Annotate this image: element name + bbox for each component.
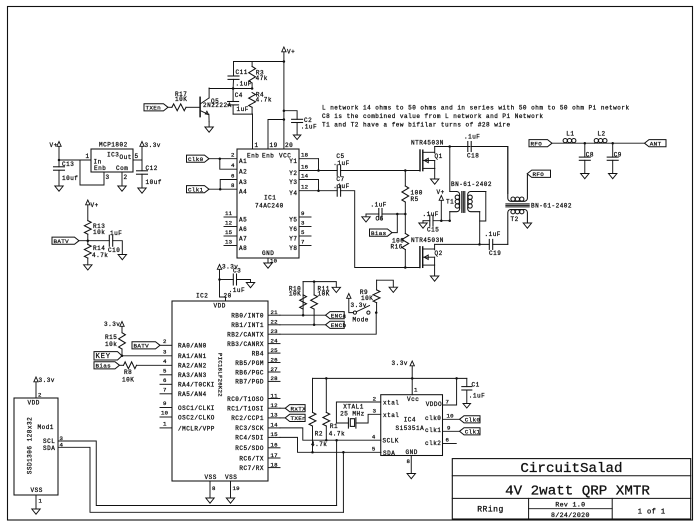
wire Clk1 to A3 xyxy=(220,172,247,189)
svg-text:10uf: 10uf xyxy=(62,175,78,182)
svg-text:RA2/AN2: RA2/AN2 xyxy=(178,363,207,370)
node R3/R4 tap xyxy=(251,87,254,90)
svg-text:3.3v: 3.3v xyxy=(39,377,55,384)
svg-text:C9: C9 xyxy=(614,151,622,158)
ground (R10/R11) xyxy=(332,287,340,292)
svg-text:RC2/CCP1: RC2/CCP1 xyxy=(231,415,264,422)
svg-text:.1uF: .1uF xyxy=(423,211,439,218)
node Clk0 branch xyxy=(219,157,222,160)
pin 13 RC2/CCP1 (IC2) xyxy=(231,412,280,423)
pin stub A8 xyxy=(224,239,247,252)
clock IC4 Si5351A body xyxy=(381,395,443,457)
svg-text:5: 5 xyxy=(372,446,376,453)
svg-text:C8 is the combined value from: C8 is the combined value from L network … xyxy=(322,113,543,120)
capacitor C9 xyxy=(607,143,622,173)
svg-text:3.3v: 3.3v xyxy=(104,321,120,328)
pin 24 RB3/CANRX (IC2) xyxy=(227,337,280,348)
ground (VSS 19) xyxy=(226,498,234,503)
svg-text:9: 9 xyxy=(301,210,305,217)
label Clk0 (flag to A1) xyxy=(187,155,210,163)
resistor R11 10K xyxy=(311,282,330,325)
wire IC3 Out to C12 xyxy=(133,159,142,161)
svg-text:RFO: RFO xyxy=(533,171,545,178)
svg-text:Y6: Y6 xyxy=(289,226,297,233)
pin 22 RB1/INT1 (IC2) xyxy=(231,319,280,330)
svg-text:A6: A6 xyxy=(239,226,247,233)
svg-text:.1uF: .1uF xyxy=(464,134,480,141)
title text RRing xyxy=(477,506,504,515)
svg-text:10K: 10K xyxy=(289,291,301,298)
svg-text:15: 15 xyxy=(225,229,233,236)
svg-text:3.3v: 3.3v xyxy=(351,302,367,309)
pin 26 RB5/PGM (IC2) xyxy=(235,356,280,367)
wire Y3 to Y4 xyxy=(318,180,320,191)
svg-text:4.7k: 4.7k xyxy=(311,441,327,448)
svg-text:Si5351A: Si5351A xyxy=(396,425,425,432)
node C1 tap xyxy=(455,377,458,380)
node SDA drop xyxy=(342,451,345,454)
wire C7 to Q2 gate xyxy=(340,191,420,268)
svg-text:R15: R15 xyxy=(105,334,117,341)
svg-text:8: 8 xyxy=(231,182,235,189)
svg-text:Y4: Y4 xyxy=(289,190,297,197)
node Y3/Y4 join xyxy=(317,189,320,192)
node BATV/R13/R14 xyxy=(87,239,90,242)
display Mod1 SSD1306 body xyxy=(14,398,58,495)
pin 1 wire (IC4 Vcc) xyxy=(414,387,418,394)
svg-text:2N2222A: 2N2222A xyxy=(203,102,232,109)
svg-text:C13: C13 xyxy=(62,161,74,168)
svg-text:Y2: Y2 xyxy=(289,170,297,177)
node R10/ENCa xyxy=(302,314,305,317)
wire C4/R4 to IC1 pin1 xyxy=(233,114,252,149)
wire VDDO pin7 xyxy=(443,378,457,405)
svg-text:9: 9 xyxy=(447,425,451,432)
svg-text:C8: C8 xyxy=(586,151,594,158)
svg-text:1 of 1: 1 of 1 xyxy=(638,509,666,517)
capacitor C5 .1uF xyxy=(333,153,349,176)
svg-text:NTR4503N: NTR4503N xyxy=(411,140,444,147)
svg-text:C5: C5 xyxy=(336,153,344,160)
label RFO (flag source) xyxy=(529,140,552,148)
pin Y3 wire xyxy=(289,172,318,186)
pin stub clk2 xyxy=(443,437,457,444)
svg-text:RB2/CANTX: RB2/CANTX xyxy=(227,332,264,339)
label TXEn (flag pin13) xyxy=(280,414,306,422)
inductor L1 xyxy=(552,131,595,144)
wire Clk1 to A4 xyxy=(209,182,247,196)
label RxTX (flag pin12) xyxy=(280,405,306,413)
label RFO (flag from T2) xyxy=(527,170,550,178)
wire R9 to ground xyxy=(377,280,394,287)
label Clk1 (flag out) xyxy=(460,428,481,436)
capacitor C3 .1uF xyxy=(220,268,251,295)
svg-text:2: 2 xyxy=(38,392,42,399)
node R1/rail xyxy=(325,377,328,380)
svg-text:VDD: VDD xyxy=(28,400,40,407)
wire Q1 drain to rail xyxy=(434,147,436,154)
svg-text:4.7k: 4.7k xyxy=(256,97,272,104)
svg-text:A1: A1 xyxy=(239,158,247,165)
svg-text:25 MHz: 25 MHz xyxy=(340,411,365,418)
ground (VSS 8) xyxy=(206,498,214,503)
svg-text:7: 7 xyxy=(163,387,167,394)
wire rail to C1 xyxy=(466,378,468,386)
wire C15 to T1 xyxy=(433,220,450,222)
ground (T2 secondary) xyxy=(523,223,531,228)
svg-text:Clk1: Clk1 xyxy=(188,187,204,194)
svg-text:8: 8 xyxy=(407,458,411,465)
svg-text:10K: 10K xyxy=(175,96,187,103)
svg-text:xtal: xtal xyxy=(383,412,399,419)
resistor R13 10k xyxy=(84,221,105,241)
power symbol V+ (R13) xyxy=(86,200,99,221)
svg-text:BATV: BATV xyxy=(54,238,70,245)
pin stub OSC2 xyxy=(160,410,215,422)
wire C6 ground stub xyxy=(365,214,367,217)
ground (C13) xyxy=(55,186,63,191)
wire C10 to ground xyxy=(113,241,123,255)
pin 2 label (IC3 Com) xyxy=(124,174,128,181)
svg-text:VDD: VDD xyxy=(214,303,226,310)
node Y1/Y2 join xyxy=(317,169,320,172)
ground (Q1 source) xyxy=(431,179,439,184)
svg-text:C4: C4 xyxy=(235,92,243,99)
ground (C15) xyxy=(419,223,427,228)
svg-text:TXEn: TXEn xyxy=(146,105,162,112)
capacitor C12 xyxy=(137,160,162,188)
svg-text:1uF: 1uF xyxy=(237,106,249,113)
svg-text:A4: A4 xyxy=(239,189,247,196)
svg-text:9: 9 xyxy=(163,400,167,407)
svg-text:L network 14 ohms to 50 ohms a: L network 14 ohms to 50 ohms and in seri… xyxy=(322,104,630,111)
svg-text:RB1/INT1: RB1/INT1 xyxy=(231,322,264,329)
svg-text:16: 16 xyxy=(301,163,309,170)
svg-text:3.3v: 3.3v xyxy=(392,360,408,367)
switch Mode xyxy=(353,306,371,324)
pin stub MCLR xyxy=(160,421,215,433)
svg-text:20: 20 xyxy=(285,142,293,149)
label Clk0 (flag out) xyxy=(460,416,481,424)
svg-text:V+: V+ xyxy=(91,202,99,209)
svg-text:2: 2 xyxy=(163,338,167,345)
svg-text:VSS: VSS xyxy=(31,487,43,494)
ground (C12) xyxy=(138,188,146,193)
svg-text:C10: C10 xyxy=(108,247,120,254)
power symbol V+ (C13 input) xyxy=(50,142,62,161)
svg-text:1: 1 xyxy=(39,498,43,505)
wire SCLK net xyxy=(280,428,381,440)
title text date xyxy=(551,512,590,519)
wire T1 center tap line xyxy=(423,220,430,222)
transistor Q5 2N2222A xyxy=(200,88,232,122)
capacitor C6 .1uF xyxy=(366,202,405,223)
transformer T2 BN-61-2402 xyxy=(506,147,572,245)
wire Q1 source to ground xyxy=(434,168,436,179)
wire C5 to Q1 gate xyxy=(340,170,420,172)
svg-text:RC0/T1OSO: RC0/T1OSO xyxy=(227,396,264,403)
wire Clk0 to A1 xyxy=(209,152,247,166)
ground (C2) xyxy=(293,135,301,140)
wire IC4 GND pin8 xyxy=(407,456,412,474)
svg-text:ANT: ANT xyxy=(650,141,662,148)
wire display SCL xyxy=(58,435,337,506)
ground (C9) xyxy=(609,174,617,179)
svg-text:XTAL1: XTAL1 xyxy=(343,404,364,411)
svg-text:RA4/T0CKI: RA4/T0CKI xyxy=(178,382,215,389)
pin stub OSC1 xyxy=(160,400,215,412)
svg-text:R8: R8 xyxy=(124,369,132,376)
svg-text:10: 10 xyxy=(161,410,169,417)
capacitor C13 xyxy=(54,160,79,186)
svg-text:RA1/AN1: RA1/AN1 xyxy=(178,353,207,360)
svg-text:8: 8 xyxy=(212,485,216,492)
resistor R9 10K xyxy=(360,280,380,312)
node rail/T1 junction xyxy=(448,145,451,148)
svg-text:RA0/AN0: RA0/AN0 xyxy=(178,343,207,350)
pin stub RA3 xyxy=(160,368,207,380)
svg-text:V+: V+ xyxy=(287,49,295,56)
pin Y1 wire xyxy=(289,152,318,166)
svg-text:6: 6 xyxy=(446,437,450,444)
node V+/rail junction xyxy=(283,60,286,63)
pin 12 RC1/T1OSI (IC2) xyxy=(227,402,280,413)
svg-text:GND: GND xyxy=(262,250,274,257)
svg-text:Vcc: Vcc xyxy=(407,396,419,403)
resistor R1 4.7k xyxy=(323,378,345,440)
resistor R3 47k xyxy=(249,62,268,89)
svg-text:1: 1 xyxy=(414,387,418,394)
node R1/SCLK xyxy=(325,439,328,442)
svg-text:ENCb: ENCb xyxy=(331,322,347,329)
svg-text:8/24/2020: 8/24/2020 xyxy=(551,512,590,519)
svg-text:T1: T1 xyxy=(446,199,454,206)
svg-text:/MCLR/VPP: /MCLR/VPP xyxy=(178,425,215,432)
svg-text:4.7k: 4.7k xyxy=(92,252,108,259)
svg-text:PIC18LF26K22: PIC18LF26K22 xyxy=(217,353,224,397)
node L1/C8 xyxy=(584,142,587,145)
wire Q5 collector node xyxy=(209,88,252,90)
pin stub A6 xyxy=(224,220,247,233)
pin 15 RC4/SDI (IC2) xyxy=(235,431,280,442)
svg-text:VSS: VSS xyxy=(225,474,237,481)
wire pin22 to ENCb xyxy=(280,324,326,326)
svg-text:C12: C12 xyxy=(146,165,158,172)
svg-text:R1: R1 xyxy=(330,423,338,430)
pin stub RA5 xyxy=(160,387,207,399)
title text CircuitSalad xyxy=(520,461,622,477)
wire pin23 to Mode switch xyxy=(280,313,376,335)
svg-text:MCP1802: MCP1802 xyxy=(99,142,128,149)
svg-text:NTR4503N: NTR4503N xyxy=(411,237,444,244)
svg-text:19: 19 xyxy=(270,142,278,149)
svg-text:Bias: Bias xyxy=(96,363,112,370)
ground (Q2 source) xyxy=(430,276,438,281)
svg-text:RFO: RFO xyxy=(531,141,543,148)
power rail 3.3v wire xyxy=(313,377,467,379)
pin 1 label (IC1) xyxy=(255,142,259,149)
svg-text:1: 1 xyxy=(86,153,90,160)
svg-text:10uf: 10uf xyxy=(146,179,162,186)
pin 5 label (IC4) xyxy=(372,446,376,453)
pin stub Y7 xyxy=(289,229,311,242)
pin 28 RB7/PGD (IC2) xyxy=(235,375,280,386)
svg-text:A2: A2 xyxy=(239,169,247,176)
ground (Q5 emitter) xyxy=(205,127,213,132)
power symbol 3.3v (IC4) xyxy=(392,360,415,395)
svg-text:RB7/PGD: RB7/PGD xyxy=(235,379,264,386)
svg-text:.1uF: .1uF xyxy=(333,183,349,190)
wire Y1 to Y2 xyxy=(318,159,320,171)
wire Q2 drain rail to C19 xyxy=(435,243,490,245)
label Bias (flag mid) xyxy=(370,229,393,237)
pin 20 label (IC2 VDD) xyxy=(224,293,232,300)
svg-text:C18: C18 xyxy=(467,153,479,160)
pin 3 label (XTAL) xyxy=(373,408,377,415)
svg-text:10k: 10k xyxy=(105,341,117,348)
node R11 top xyxy=(313,280,316,283)
node R11/ENCb xyxy=(313,324,316,327)
svg-text:18: 18 xyxy=(301,152,309,159)
svg-text:5: 5 xyxy=(135,153,139,160)
svg-text:RB4: RB4 xyxy=(252,350,264,357)
pin 18 RC7/RX (IC2) xyxy=(239,461,280,472)
svg-text:Y3: Y3 xyxy=(289,179,297,186)
svg-text:7: 7 xyxy=(446,399,450,406)
buffer IC1 74AC240 body xyxy=(237,149,299,258)
svg-text:RA5/AN4: RA5/AN4 xyxy=(178,391,207,398)
resistor R2 4.7k xyxy=(309,378,327,452)
note text line 3 xyxy=(322,121,511,128)
wire SDA drop to display xyxy=(342,452,344,512)
wire SDA net xyxy=(280,437,381,452)
svg-text:12: 12 xyxy=(301,184,309,191)
svg-text:Clk0: Clk0 xyxy=(188,156,204,163)
resistor R5 100 xyxy=(402,171,423,215)
wire C18 to T2 xyxy=(471,147,508,194)
svg-text:4: 4 xyxy=(372,434,376,441)
wire SCL drop to display xyxy=(336,440,338,505)
svg-text:.1uF: .1uF xyxy=(485,231,501,238)
pin 11 RC0/T1OSO (IC2) xyxy=(227,392,280,403)
pin 25 RB4 (IC2) xyxy=(252,347,280,358)
transistor Q1 NTR4503N xyxy=(411,140,444,171)
ground (C3) xyxy=(246,283,254,288)
svg-text:.1uF: .1uF xyxy=(371,202,387,209)
pin 3 label (IC3 Enb) xyxy=(106,174,110,181)
ground (C10) xyxy=(118,255,126,260)
svg-text:Out: Out xyxy=(120,154,132,161)
power symbol V+ (T1 tap) xyxy=(437,189,445,221)
svg-text:R14: R14 xyxy=(93,245,105,252)
svg-text:VDDO: VDDO xyxy=(426,401,442,408)
svg-text:Enb: Enb xyxy=(94,165,106,172)
label KEY (flag) xyxy=(94,352,122,362)
power symbol 3.3v (display) xyxy=(34,377,55,399)
node V+/C15 xyxy=(440,219,443,222)
svg-text:R5: R5 xyxy=(411,196,419,203)
ground (display) xyxy=(32,509,40,514)
svg-text:RA3/AN3: RA3/AN3 xyxy=(178,372,207,379)
svg-text:A3: A3 xyxy=(239,179,247,186)
capacitor C1 .1uF xyxy=(462,382,485,404)
pin Y2 wire xyxy=(289,163,337,177)
capacitor C8 xyxy=(579,143,594,173)
wire IC1 GND pin10 xyxy=(268,258,278,265)
svg-text:.1uF: .1uF xyxy=(229,287,245,294)
wire V+ to IC3 In xyxy=(59,159,91,161)
capacitor C7 .1uF xyxy=(333,176,349,196)
node C2 tap xyxy=(283,109,286,112)
node Bias/C6 junction xyxy=(396,213,399,216)
wire Q5 emitter to ground xyxy=(208,122,210,127)
pin 16 RC5/SDO (IC2) xyxy=(235,442,280,453)
wire KEY to pin3 xyxy=(122,349,207,361)
svg-text:clk0: clk0 xyxy=(425,415,441,422)
svg-text:RC3/SCK: RC3/SCK xyxy=(235,425,264,432)
ground (R14) xyxy=(84,265,92,270)
svg-text:Q2: Q2 xyxy=(435,250,443,257)
label ENCb (flag) xyxy=(326,321,347,329)
svg-text:V+: V+ xyxy=(50,142,58,149)
svg-text:Clk0: Clk0 xyxy=(465,417,481,424)
wire Q2 source to ground xyxy=(434,265,436,276)
resistor R4 4.7k xyxy=(249,92,272,115)
svg-text:4: 4 xyxy=(231,162,235,169)
svg-text:RC7/RX: RC7/RX xyxy=(239,465,264,472)
svg-text:3: 3 xyxy=(373,408,377,415)
ground (C6) xyxy=(362,217,370,222)
svg-text:SDA: SDA xyxy=(383,450,395,457)
pin stub Y5 xyxy=(289,210,311,223)
wire clk1 out xyxy=(443,425,460,432)
svg-text:1: 1 xyxy=(163,421,167,428)
wire IC3 Enb to In xyxy=(80,160,104,185)
svg-text:RC4/SDI: RC4/SDI xyxy=(235,435,264,442)
transformer T1 BN-61-2402 xyxy=(446,147,492,245)
regulator IC3 MCP1802 xyxy=(91,142,133,173)
resistor R8 10K xyxy=(120,362,173,384)
svg-text:A7: A7 xyxy=(239,235,247,242)
capacitor C4 1uF xyxy=(228,89,249,115)
svg-text:10K: 10K xyxy=(361,295,373,302)
svg-text:RB6/PGC: RB6/PGC xyxy=(235,369,264,376)
svg-text:47k: 47k xyxy=(256,75,268,82)
mcu IC2 PIC18LF26K22 body xyxy=(172,293,268,482)
node 3.3v/rail xyxy=(411,377,414,380)
svg-text:SCLK: SCLK xyxy=(383,438,399,445)
svg-text:Enb: Enb xyxy=(262,153,274,160)
svg-text:5: 5 xyxy=(163,368,167,375)
svg-text:IC2: IC2 xyxy=(196,293,208,300)
svg-text:6: 6 xyxy=(163,377,167,384)
node C3 tap xyxy=(218,278,221,281)
node T1 secondary tap xyxy=(478,243,481,246)
note text line 1 xyxy=(322,104,630,111)
svg-text:13: 13 xyxy=(225,239,233,246)
wire Q2 drain to rail xyxy=(434,244,436,249)
svg-text:Com: Com xyxy=(116,165,128,172)
svg-text:74AC240: 74AC240 xyxy=(255,203,284,210)
capacitor C19 .1uF xyxy=(485,231,502,257)
svg-text:VSS: VSS xyxy=(205,474,217,481)
pin 4 label (IC4) xyxy=(372,434,376,441)
inductor L2 xyxy=(594,131,644,144)
svg-text:3: 3 xyxy=(163,349,167,356)
svg-text:C1: C1 xyxy=(472,382,480,389)
label ENCa (flag) xyxy=(326,312,347,320)
power symbol 3.3v (R15) xyxy=(104,321,124,333)
